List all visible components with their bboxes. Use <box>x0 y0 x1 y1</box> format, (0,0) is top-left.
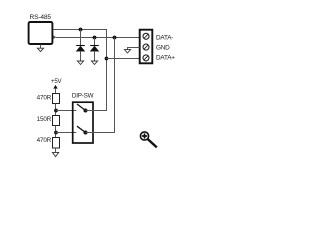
wire: diode D1 cathode drop <box>80 30 82 46</box>
RS-485 transceiver module U1 <box>29 22 53 44</box>
wire: ground stub under RS-485 module <box>40 45 42 49</box>
+5V supply arrow <box>53 85 57 89</box>
ground under diode D2 <box>91 61 97 65</box>
svg-text:DIP-SW: DIP-SW <box>72 92 94 99</box>
node: DATA- vertical bus tap <box>113 36 117 40</box>
node A <box>54 109 58 113</box>
wire: GND terminal to ground arrow <box>128 48 140 50</box>
switch S1 contact <box>84 109 88 113</box>
DIP switch box <box>73 102 93 143</box>
svg-text:GND: GND <box>156 44 170 51</box>
protection diode D1 <box>76 46 85 52</box>
wire: node B to switch S2 <box>56 132 77 134</box>
wire: diode D2 anode to ground <box>94 51 96 61</box>
screw terminal DATA+ <box>143 55 149 61</box>
resistor R3 470R <box>53 138 60 149</box>
zoom cursor icon <box>140 132 156 148</box>
wire: switch S1 to DATA+ bus <box>86 110 108 112</box>
svg-text:470R: 470R <box>37 137 52 144</box>
switch S1 lever <box>77 104 86 111</box>
svg-text:DATA+: DATA+ <box>156 55 175 62</box>
node B <box>54 131 58 135</box>
switch S2 contact <box>84 131 88 135</box>
svg-text:470R: 470R <box>37 95 52 102</box>
node: diode D1 tap on pin A wire <box>79 28 83 32</box>
node: DATA+ junction <box>105 57 109 61</box>
wire: diode D2 cathode drop <box>94 38 96 46</box>
wire: DATA+ junction to DATA+ terminal <box>107 58 140 60</box>
screw terminal DATA- <box>143 33 149 39</box>
terminal block J1 <box>140 30 153 64</box>
pin marker on RS-485 pin B <box>53 36 55 38</box>
switch S2 lever <box>77 126 86 132</box>
wire: node A to switch S1 <box>56 110 77 112</box>
wire: switch S2 to DATA- bus <box>86 132 116 134</box>
wire: R1 to R2 <box>55 104 57 116</box>
wire: diode D1 anode to ground <box>80 51 82 61</box>
resistor R2 150R <box>53 116 60 126</box>
node: diode D2 tap on DATA- wire <box>93 36 97 40</box>
svg-text:RS-485: RS-485 <box>29 14 51 21</box>
wire: DATA+ vertical bus <box>106 30 108 111</box>
wire: R3 to ground <box>55 148 57 152</box>
wire: DATA- vertical bus to switch S2 <box>114 38 116 133</box>
wire: R2 to R3 <box>55 126 57 138</box>
ground under R3 <box>53 152 59 156</box>
ground at GND terminal <box>124 50 130 53</box>
wire: RS-485 pin B to DATA- terminal <box>56 37 140 39</box>
ground under diode D1 <box>77 61 83 65</box>
ground under RS-485 module <box>37 48 43 51</box>
wire: +5V to resistor R1 <box>55 89 57 94</box>
svg-text:+5V: +5V <box>51 79 62 85</box>
svg-text:150R: 150R <box>37 116 52 123</box>
resistor R1 470R <box>53 94 60 104</box>
protection diode D2 <box>90 46 99 52</box>
wire: RS-485 pin A to DATA+ vertical bus <box>53 29 107 31</box>
svg-text:DATA-: DATA- <box>156 35 173 42</box>
screw terminal GND <box>143 44 149 50</box>
